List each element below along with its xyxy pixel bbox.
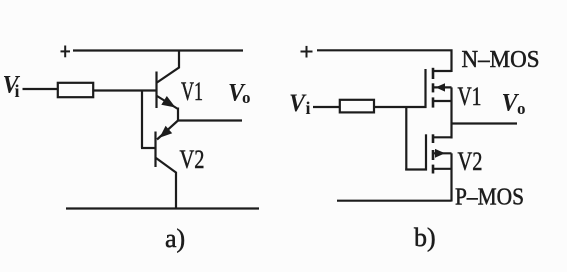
svg-text:a): a)	[165, 224, 185, 253]
svg-text:o: o	[242, 88, 251, 107]
svg-text:i: i	[15, 81, 20, 101]
svg-text:V1: V1	[458, 82, 482, 111]
svg-text:P–MOS: P–MOS	[455, 185, 524, 211]
svg-text:N–MOS: N–MOS	[462, 47, 540, 73]
svg-text:o: o	[517, 99, 526, 118]
svg-text:b): b)	[414, 223, 436, 252]
svg-text:V2: V2	[458, 147, 483, 176]
svg-text:V: V	[289, 90, 307, 117]
svg-text:V1: V1	[181, 77, 203, 106]
svg-text:i: i	[306, 98, 311, 118]
svg-text:V2: V2	[180, 145, 205, 174]
